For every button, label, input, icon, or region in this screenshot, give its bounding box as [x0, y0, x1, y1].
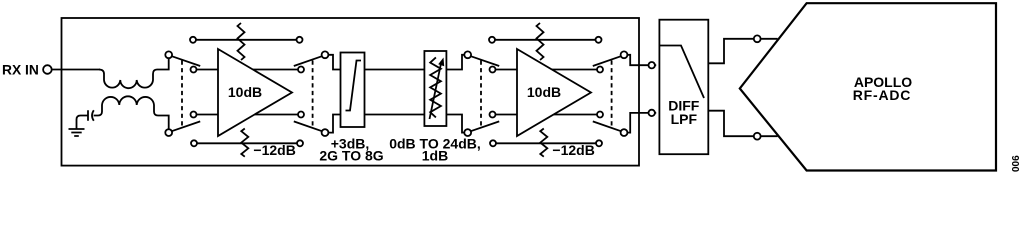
throw terminal A1 bypass bot-left: [191, 140, 197, 146]
switch arm A2L-top: [471, 56, 500, 66]
slope equalizer block (+3dB 2G-8G): [341, 53, 365, 128]
wire A2 to LPF bottom: [627, 113, 656, 133]
gang dashed link A1L: [181, 61, 183, 128]
throw terminal A1 amp in+: [191, 67, 197, 73]
wire A2 to LPF top: [627, 55, 656, 65]
switch arm A1R-bot: [294, 121, 322, 131]
wire A2 in- to amp: [496, 114, 518, 116]
throw terminal A2 bypass top-left: [489, 37, 495, 43]
wire A1 out-: [255, 114, 298, 116]
outer AFE box: [62, 18, 640, 166]
wire A2 bypass top: [495, 39, 596, 41]
throw terminal A2 out-: [597, 112, 603, 118]
wire LPF to ADC bottom: [708, 111, 777, 137]
wire A1 pole to EQ bottom: [328, 115, 340, 133]
switch arm A1L-bot: [172, 121, 201, 131]
wire A2 out+: [552, 69, 597, 71]
input terminal RX IN: [43, 65, 52, 74]
switch pole A2R-bot: [621, 129, 628, 136]
switch pole A1R-top: [322, 51, 329, 58]
op-amp A1 10dB amplifier: [218, 49, 292, 136]
wire EQ to ATT top: [365, 69, 425, 71]
node ADC in-: [754, 133, 761, 140]
switch pole A1R-bot: [322, 129, 329, 136]
wire A1 in- to amp: [197, 114, 219, 116]
svg-text:−12dB: −12dB: [552, 142, 594, 158]
throw terminal A2 bypass bot-right: [596, 140, 602, 146]
throw terminal A2 out+: [597, 67, 603, 73]
attenuator arrow: [430, 64, 442, 120]
wire A1 out+: [253, 69, 298, 71]
wire A1 in+ to amp: [197, 69, 219, 71]
switch arm A2R-bot: [593, 121, 621, 131]
throw terminal A1 bypass bot-right: [297, 140, 303, 146]
capacitor C1 (secondary to ground): [77, 110, 99, 129]
ADC chevron (APOLLO RF-ADC): [740, 3, 996, 170]
switch pole A2R-top: [621, 51, 628, 58]
wire ATT to A2 top: [446, 55, 464, 70]
switch pole A2L-bot: [464, 129, 471, 136]
wire A1 pole to EQ top: [328, 55, 340, 70]
svg-text:−12dB: −12dB: [253, 142, 295, 158]
throw terminal A2 bypass bot-left: [490, 140, 496, 146]
svg-text:10dB: 10dB: [228, 84, 262, 100]
switch pole A1L-top: [165, 51, 172, 58]
wire ATT to A2 bottom: [446, 115, 464, 133]
throw terminal A1 amp in-: [191, 112, 197, 118]
gang dashed link A2L: [480, 61, 482, 128]
resistor A2 bypass bottom (-12dB): [540, 129, 547, 157]
switch pole A1L-bot: [165, 129, 172, 136]
throw terminal A2 amp in+: [490, 67, 496, 73]
switch pole A2L-top: [464, 51, 471, 58]
svg-text:10dB: 10dB: [527, 84, 561, 100]
throw terminal A1 out-: [298, 112, 304, 118]
throw terminal A1 bypass top-right: [297, 37, 303, 43]
wire RX IN to balun: [52, 69, 100, 71]
svg-text:1dB: 1dB: [422, 147, 448, 163]
wire A2 out-: [554, 114, 597, 116]
gang dashed link A1R: [312, 61, 314, 128]
transformer T1 secondary winding: [98, 96, 169, 129]
variable resistor symbol: [430, 57, 441, 117]
svg-text:006: 006: [1011, 155, 1022, 172]
wire A1 bypass bottom: [197, 142, 297, 144]
throw terminal A1 bypass top-left: [190, 37, 196, 43]
node LPF in-: [649, 110, 655, 116]
wire LPF to ADC top: [708, 39, 777, 64]
wire A1 bypass top: [196, 39, 297, 41]
switch arm A1R-top: [294, 56, 322, 66]
svg-text:LPF: LPF: [671, 111, 698, 127]
switch arm A1L-top: [172, 56, 201, 66]
svg-text:RX IN: RX IN: [2, 63, 39, 78]
node LPF in+: [649, 62, 655, 68]
svg-text:2G TO 8G: 2G TO 8G: [319, 147, 383, 163]
throw terminal A2 bypass top-right: [596, 37, 602, 43]
wire A2 in+ to amp: [496, 69, 518, 71]
op-amp A2 10dB amplifier: [517, 49, 591, 136]
switch arm A2L-bot: [471, 121, 500, 131]
slope symbol: [346, 61, 362, 111]
wire EQ to ATT bottom: [365, 114, 425, 116]
transformer T1 primary winding: [99, 58, 169, 88]
resistor A1 bypass bottom (-12dB): [241, 129, 248, 157]
node ADC in+: [754, 35, 761, 42]
svg-text:RF-ADC: RF-ADC: [853, 87, 911, 103]
LPF response symbol: [659, 46, 704, 99]
throw terminal A1 out+: [298, 67, 304, 73]
DIFF LPF block: [659, 20, 708, 155]
throw terminal A2 amp in-: [490, 112, 496, 118]
resistor A1 bypass top: [238, 23, 245, 60]
resistor A2 bypass top: [537, 23, 544, 60]
digital step attenuator block (0-24dB): [424, 51, 446, 126]
wire A2 bypass bottom: [496, 142, 596, 144]
gang dashed link A2R: [611, 61, 613, 128]
switch arm A2R-top: [593, 56, 621, 66]
ground: [69, 129, 85, 136]
